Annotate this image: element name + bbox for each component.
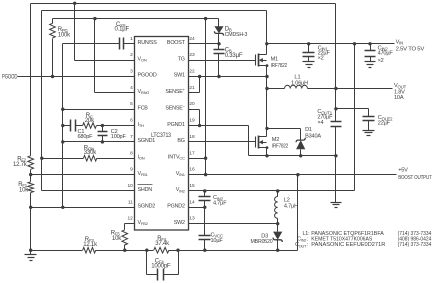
resistor RC xyxy=(83,123,97,129)
resistor RF1 xyxy=(28,182,34,193)
pin 4 label VRNG xyxy=(138,89,150,95)
svg-text:+5V: +5V xyxy=(398,167,408,173)
resistor RF5 xyxy=(122,224,135,251)
node bottom-left ground junction xyxy=(29,249,32,252)
node SGND2 left junction xyxy=(29,206,32,209)
node CF4 left junction xyxy=(145,249,148,252)
svg-text:VFB2: VFB2 xyxy=(138,220,149,226)
wire VON riser and pin2 line xyxy=(75,4,135,61)
pin 6 number xyxy=(130,118,133,124)
svg-text:VOUT: VOUT xyxy=(394,83,407,89)
svg-text:470µF: 470µF xyxy=(378,51,394,57)
label L2 xyxy=(284,198,298,210)
label C2 value xyxy=(111,129,127,140)
wire M2 drain link xyxy=(266,129,268,137)
wire SGND vertical xyxy=(62,44,64,208)
pin 19 label PGND1 xyxy=(167,122,185,128)
pin 17 label INTVCC xyxy=(168,154,185,160)
pin 14 label PGND2 xyxy=(167,204,185,210)
node C2 bottom junction xyxy=(101,140,104,143)
label M1 xyxy=(271,56,287,68)
wire VIN left drop xyxy=(41,11,43,191)
svg-text:PGOOD: PGOOD xyxy=(138,73,157,79)
svg-text:7: 7 xyxy=(130,134,133,140)
node RON left junction xyxy=(40,157,43,160)
label CIN2 bypass value xyxy=(213,195,227,206)
ground CIN2 bulk xyxy=(365,62,376,68)
pin 7 number xyxy=(130,134,133,140)
svg-text:22: 22 xyxy=(189,69,195,75)
node INTVCC riser junction xyxy=(204,17,207,20)
svg-text:13: 13 xyxy=(189,216,195,222)
ground G1 xyxy=(25,251,37,261)
pin 23 number xyxy=(189,52,195,58)
svg-text:INTVCC: INTVCC xyxy=(168,154,185,160)
svg-text:SENSE+: SENSE+ xyxy=(165,87,185,95)
label COUT1 value xyxy=(317,109,333,126)
ground COUT main xyxy=(331,203,342,208)
svg-text:10µF: 10µF xyxy=(211,238,224,244)
transistor M2 IRF7822 xyxy=(256,136,269,150)
svg-text:4.7µH: 4.7µH xyxy=(284,204,298,210)
pin 5 label FCB xyxy=(138,105,149,111)
svg-text:10: 10 xyxy=(127,183,133,189)
svg-text:IRF7822: IRF7822 xyxy=(271,63,287,69)
wire PGOOD line xyxy=(18,76,135,78)
node CIN1 junction xyxy=(307,42,310,45)
wire VRNG riser xyxy=(95,19,135,93)
pin 5 number xyxy=(130,101,133,107)
pin 13 number xyxy=(189,216,195,222)
node SGND1 left junction xyxy=(61,140,64,143)
svg-text:PGND2: PGND2 xyxy=(167,204,185,210)
svg-text:20k: 20k xyxy=(85,118,95,124)
pin 8 number xyxy=(130,150,133,156)
svg-text:16: 16 xyxy=(189,167,195,173)
svg-text:12.7k: 12.7k xyxy=(13,162,28,168)
node M1 drain junction xyxy=(265,42,268,45)
wire INTVCC riser xyxy=(205,19,207,175)
svg-text:1000pF: 1000pF xyxy=(151,264,171,270)
label RF4 value xyxy=(155,236,170,247)
capacitor CIN2 bypass xyxy=(199,191,211,208)
svg-text:3: 3 xyxy=(130,69,133,75)
label COUT2 value xyxy=(378,115,393,126)
svg-text:SGND2: SGND2 xyxy=(138,204,156,210)
inductor L1 xyxy=(267,85,308,88)
wire SENSE+ tie xyxy=(189,77,200,93)
svg-text:11: 11 xyxy=(128,199,133,205)
inductor L2 xyxy=(275,191,278,224)
wire INTVCC pin stub xyxy=(189,158,206,160)
svg-text:×2: ×2 xyxy=(318,56,324,62)
node C1 left junction xyxy=(61,124,64,127)
capacitor COUT1 xyxy=(331,89,342,203)
pin 19 number xyxy=(189,118,195,124)
wire PGND1 line xyxy=(189,126,249,156)
svg-text:21: 21 xyxy=(189,85,195,91)
node M2 drain junction xyxy=(265,127,268,130)
pin 2 label VON xyxy=(138,56,147,62)
svg-text:10k: 10k xyxy=(112,236,122,242)
svg-text:SHDN: SHDN xyxy=(138,187,153,193)
svg-text:10A: 10A xyxy=(394,95,404,101)
svg-text:VON: VON xyxy=(138,56,147,62)
label PGOOD xyxy=(2,75,18,81)
svg-text:100pF: 100pF xyxy=(111,134,127,140)
svg-text:PGND1: PGND1 xyxy=(167,122,185,128)
wire TG line xyxy=(189,60,256,62)
capacitor CIN2 bulk xyxy=(365,44,376,62)
label RON value xyxy=(84,145,97,156)
resistor RF2 xyxy=(28,156,34,170)
svg-text:(714) 373-7334: (714) 373-7334 xyxy=(398,242,432,248)
svg-text:12.1k: 12.1k xyxy=(83,242,98,248)
pin 12 number xyxy=(127,216,133,222)
capacitor C1 xyxy=(63,120,83,132)
svg-text:CMDSH-3: CMDSH-3 xyxy=(225,32,248,38)
node VIN2 riser top junction xyxy=(353,42,356,45)
wire FCB line xyxy=(63,109,135,111)
svg-text:23: 23 xyxy=(189,52,195,58)
svg-text:MBR0520: MBR0520 xyxy=(251,239,273,245)
node CIN2 top junction xyxy=(203,189,206,192)
pin 14 number xyxy=(189,199,195,205)
wire M1 drain to VIN xyxy=(266,44,268,55)
pin 20 label SENSE- xyxy=(165,103,185,111)
pin 10 number xyxy=(127,183,133,189)
pin 23 label TG xyxy=(178,56,185,62)
wire M1 source to SW xyxy=(266,66,268,129)
svg-text:9: 9 xyxy=(130,167,133,173)
svg-text:37.4k: 37.4k xyxy=(155,241,170,247)
label CF4 value xyxy=(151,258,171,269)
pin 22 number xyxy=(189,69,195,75)
wire bottom rail right xyxy=(169,250,298,252)
wire COUT2 branch xyxy=(336,108,369,110)
svg-text:M2: M2 xyxy=(272,137,279,143)
node VOUT branch junction xyxy=(334,87,337,90)
node FCB junction xyxy=(61,108,64,111)
svg-text:SGND1: SGND1 xyxy=(138,138,156,144)
node CVCC bottom junction xyxy=(203,249,206,252)
node INTVCC-VRNG junction xyxy=(93,17,96,20)
resistor RF3 xyxy=(83,247,96,253)
label CIN2 bulk value xyxy=(378,46,394,64)
svg-text:PGOOD: PGOOD xyxy=(2,75,18,81)
pin 16 label VIN1 xyxy=(176,171,186,177)
label CIN1 value xyxy=(318,45,331,61)
pin 4 number xyxy=(130,85,133,91)
svg-text:10k: 10k xyxy=(19,187,29,193)
pin 18 label BG xyxy=(177,138,184,144)
node SW2-D3 junction xyxy=(276,222,279,225)
node CIN2 bottom junction xyxy=(203,206,206,209)
label VIN terminal xyxy=(396,40,425,53)
resistor RF4 xyxy=(154,247,169,253)
pin 10 label SHDN xyxy=(138,185,153,194)
pin 8 label ION xyxy=(138,154,145,160)
wire RF1 to ground rail xyxy=(30,193,32,251)
wire INTVCC top rail xyxy=(53,18,219,20)
wire bottom rail left xyxy=(31,250,83,252)
label note L1 xyxy=(302,231,431,237)
node VIN1 junction xyxy=(204,173,207,176)
wire bottom rail mid xyxy=(96,250,154,252)
label RF2 value xyxy=(13,156,28,168)
node CF4 right junction xyxy=(176,249,179,252)
svg-text:IRF7822: IRF7822 xyxy=(272,143,288,149)
label RF3 value xyxy=(83,237,98,248)
node COUT branch junction xyxy=(334,107,337,110)
svg-text:×2: ×2 xyxy=(378,58,384,64)
svg-text:17: 17 xyxy=(189,150,195,156)
wire BG line xyxy=(189,141,256,143)
label D3 xyxy=(251,234,273,245)
svg-text:M1: M1 xyxy=(271,56,278,62)
pin 1 label RUN/SS xyxy=(138,40,158,46)
svg-text:100k: 100k xyxy=(58,33,71,39)
wire PGND2 stub xyxy=(189,207,205,209)
label D1 xyxy=(305,127,321,139)
pin 9 label VFB1 xyxy=(138,171,149,177)
pin 21 number xyxy=(189,85,195,91)
pin 11 label SGND2 xyxy=(138,204,156,210)
svg-text:2: 2 xyxy=(130,52,133,58)
node RPG-PGOOD junction xyxy=(51,75,54,78)
node D1 anode rail junction xyxy=(299,154,302,157)
label CSS value xyxy=(115,22,130,33)
label DB value xyxy=(225,26,248,38)
capacitor CSS xyxy=(63,38,135,50)
wire SGND1 line xyxy=(63,141,135,143)
ground COUT2 xyxy=(363,131,375,136)
svg-text:ION: ION xyxy=(138,154,145,160)
pin 9 number xyxy=(130,167,133,173)
capacitor CIN1 xyxy=(303,44,315,62)
pin 17 number xyxy=(189,150,195,156)
resistor RON xyxy=(42,155,135,161)
svg-text:SW1: SW1 xyxy=(174,73,185,79)
pin 24 label BOOST xyxy=(167,40,186,46)
capacitor C2 xyxy=(98,126,108,142)
node ITH-C2 junction xyxy=(101,124,104,127)
node SENSE+ tie junction xyxy=(198,75,201,78)
svg-text:VIN: VIN xyxy=(396,40,404,46)
node SGND vertical bottom junction xyxy=(61,206,64,209)
svg-text:BOOST: BOOST xyxy=(167,40,186,46)
wire SW1 line xyxy=(189,76,267,78)
svg-text:0.33µF: 0.33µF xyxy=(225,53,243,59)
svg-text:SENSE−: SENSE− xyxy=(165,103,185,111)
wire VOUT top rail xyxy=(31,3,336,5)
wire SGND2 line xyxy=(31,207,135,209)
label note CIN2 xyxy=(297,237,431,243)
pin 21 label SENSE+ xyxy=(165,87,185,95)
svg-text:BG: BG xyxy=(177,138,184,144)
wire SW to D1 link xyxy=(267,129,301,141)
node VON-VOUT junction xyxy=(73,2,76,5)
svg-text:B340A: B340A xyxy=(305,134,321,140)
svg-text:0.1µF: 0.1µF xyxy=(115,27,130,33)
svg-text::: : xyxy=(307,242,309,248)
pin 20 number xyxy=(189,101,195,107)
node CB bottom junction xyxy=(217,75,220,78)
wire RF2-RF1 link xyxy=(30,170,32,182)
svg-text:VRNG: VRNG xyxy=(138,89,150,95)
label U1 LTC3713 xyxy=(151,133,172,139)
label CB value xyxy=(225,48,243,59)
wire BOOST line xyxy=(189,43,219,45)
wire VIN right drop to M1 drain xyxy=(266,11,268,44)
wire SENSE- tie xyxy=(189,110,200,126)
wire SW2 line xyxy=(189,223,278,225)
svg-text:680pF: 680pF xyxy=(78,134,94,140)
svg-text:1.06µH: 1.06µH xyxy=(291,80,308,86)
resistor RPG xyxy=(50,19,56,77)
wire SHDN line xyxy=(42,190,135,192)
wire VIN top rail xyxy=(42,10,267,12)
node L2 top junction xyxy=(276,189,279,192)
label RF1 value xyxy=(18,182,29,193)
wire ITH line xyxy=(97,125,135,127)
pin 7 label SGND1 xyxy=(138,138,156,144)
svg-text:VIN2: VIN2 xyxy=(176,187,186,193)
label C1 value xyxy=(78,129,94,140)
capacitor CB xyxy=(214,44,225,77)
node boost riser top junction xyxy=(296,173,299,176)
pin 18 number xyxy=(189,134,195,140)
ground CIN1 xyxy=(303,62,315,68)
svg-text:19: 19 xyxy=(189,118,195,124)
node INTVCC pin junction xyxy=(204,157,207,160)
transistor M1 IRF7822 xyxy=(256,54,269,68)
svg-text:1: 1 xyxy=(130,36,133,42)
svg-text:BOOST OUTPUT: BOOST OUTPUT xyxy=(398,175,432,181)
node D3 cathode rail junction xyxy=(276,249,279,252)
svg-text:D1: D1 xyxy=(305,127,312,133)
capacitor CVCC xyxy=(199,208,211,251)
node SW-L1 junction xyxy=(265,87,268,90)
wire VOUT line xyxy=(308,88,393,90)
pin 11 number xyxy=(128,199,133,205)
diode DB CMDSH-3 xyxy=(214,19,223,44)
svg-text:18: 18 xyxy=(189,134,195,140)
label CVCC value xyxy=(211,233,224,244)
pin 2 number xyxy=(130,52,133,58)
svg-text:ITH: ITH xyxy=(138,122,145,128)
wire VFB1 line xyxy=(31,174,135,176)
svg-text:4.7µF: 4.7µF xyxy=(213,200,227,206)
wire power ground rail xyxy=(249,155,336,157)
svg-text:5: 5 xyxy=(130,101,133,107)
svg-text:TG: TG xyxy=(178,56,185,62)
svg-text:14: 14 xyxy=(189,199,195,205)
wire VIN2 line xyxy=(189,190,355,192)
diode D1 B340A xyxy=(296,138,305,156)
svg-text:15: 15 xyxy=(189,183,195,189)
pin 12 label VFB2 xyxy=(138,220,149,226)
node DB-CB junction xyxy=(217,42,220,45)
wire VIN1/+5V line xyxy=(189,174,397,176)
diode D3 MBR0520 xyxy=(273,224,282,251)
node M2 source rail junction xyxy=(265,154,268,157)
op-amp U1 LTC3713 outline xyxy=(135,37,189,231)
pin 16 number xyxy=(189,167,195,173)
node CIN2 bulk junction xyxy=(368,42,371,45)
node SW1-M1 junction xyxy=(265,75,268,78)
label VOUT terminal xyxy=(394,83,407,101)
wire VIN2 riser xyxy=(354,44,356,191)
node SENSE- tie junction xyxy=(198,124,201,127)
pin 6 label ITH xyxy=(138,122,145,128)
svg-text:22µF: 22µF xyxy=(378,121,391,127)
svg-text:330k: 330k xyxy=(84,150,97,156)
pin 24 number xyxy=(189,36,195,42)
label +5V BOOST OUTPUT xyxy=(398,167,432,180)
label note COUT xyxy=(295,242,431,248)
pin 15 label VIN2 xyxy=(176,187,186,193)
svg-text:24: 24 xyxy=(189,36,195,42)
svg-text:RUN/SS: RUN/SS xyxy=(138,40,158,46)
label RC value xyxy=(85,113,95,124)
pin 13 label SW2 xyxy=(174,220,185,226)
svg-text:12: 12 xyxy=(127,216,133,222)
svg-text:4: 4 xyxy=(130,85,133,91)
node VFB1 divider junction xyxy=(29,173,32,176)
svg-text:SW2: SW2 xyxy=(174,220,185,226)
svg-text:VFB1: VFB1 xyxy=(138,171,149,177)
svg-text:8: 8 xyxy=(130,150,133,156)
capacitor COUT2 xyxy=(363,109,375,131)
svg-text:×4: ×4 xyxy=(317,120,323,126)
svg-text:FCB: FCB xyxy=(138,105,149,111)
wire boost output riser xyxy=(297,175,299,251)
svg-text:20: 20 xyxy=(189,101,195,107)
wire M2 source to rail xyxy=(266,148,268,156)
label L1 xyxy=(291,75,308,87)
svg-text:VIN1: VIN1 xyxy=(176,171,186,177)
svg-text:PANASONIC EEFUE0D271R: PANASONIC EEFUE0D271R xyxy=(311,242,385,248)
capacitor CF4 xyxy=(147,251,179,281)
svg-text:6: 6 xyxy=(130,118,133,124)
wire VOUT left drop to RF2 xyxy=(30,4,32,156)
svg-text:2.5V TO 5V: 2.5V TO 5V xyxy=(396,46,425,52)
label RF5 value xyxy=(111,231,122,243)
pin 1 number xyxy=(130,36,133,42)
label M2 xyxy=(272,137,288,149)
wire VOUT right drop to VOUT line xyxy=(335,4,337,89)
pin 22 label SW1 xyxy=(174,73,185,79)
pin 3 number xyxy=(130,69,133,75)
node rail-ground junction xyxy=(334,154,337,157)
label RPG value xyxy=(58,27,71,39)
node RF5 bottom junction xyxy=(123,249,126,252)
wire VIN line xyxy=(267,43,395,45)
pin 3 label PGOOD xyxy=(138,73,157,79)
pin 15 number xyxy=(189,183,195,189)
